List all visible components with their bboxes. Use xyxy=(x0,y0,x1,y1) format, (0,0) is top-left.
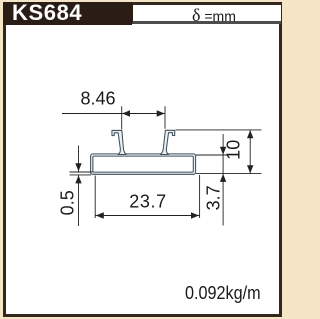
dim 10 dimension line xyxy=(249,130,251,174)
dim 3.7 extension lines xyxy=(196,154,229,156)
dim 3.7 arrowheads xyxy=(220,147,226,155)
dim 0.5 arrow leader lines xyxy=(78,146,80,172)
svg-text:10: 10 xyxy=(223,140,243,160)
dim 23.7 arrowheads xyxy=(96,212,104,218)
svg-text:0.5: 0.5 xyxy=(58,190,78,215)
dim 8.46 dimension line xyxy=(62,113,165,115)
dim 10 arrowheads xyxy=(247,130,253,138)
weight label xyxy=(185,283,261,304)
dim 8.46 extension lines xyxy=(121,106,123,129)
profile right leg with hook xyxy=(160,130,174,154)
profile base outer wall xyxy=(91,154,196,174)
profile base inner cavity xyxy=(93,156,193,172)
dim 23.7 extension lines xyxy=(94,176,96,219)
profile left leg with hook xyxy=(112,130,126,154)
dim 0.5 arrowheads xyxy=(75,163,81,171)
dim 23.7 dimension line xyxy=(95,215,199,217)
delta=mm box xyxy=(132,5,281,24)
dim 10 extension line top xyxy=(176,129,262,131)
dim 3.7 dimension line xyxy=(222,134,224,226)
svg-text:8.46: 8.46 xyxy=(80,89,115,109)
dim 8.46 arrowheads xyxy=(122,110,130,116)
svg-text:3.7: 3.7 xyxy=(203,185,223,210)
dim 0.5 extension lines xyxy=(70,171,93,173)
svg-text:23.7: 23.7 xyxy=(129,191,166,211)
title bar KS684 xyxy=(3,2,132,25)
